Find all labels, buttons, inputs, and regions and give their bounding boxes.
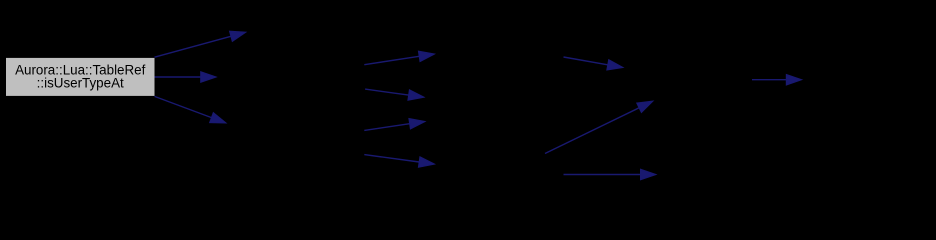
edge box->n2 <box>155 72 217 83</box>
edge n3->n7 <box>364 155 434 168</box>
edge n3->n6 <box>364 119 425 131</box>
edge box->n1 <box>155 31 246 57</box>
node box Aurora::Lua::TableRef::isUserTypeAt <box>6 57 156 96</box>
edge n7->n9 <box>564 169 657 180</box>
svg-text:::isUserTypeAt: ::isUserTypeAt <box>37 75 124 90</box>
edge box->n3 <box>155 96 227 123</box>
edge n2->n5 <box>365 89 424 100</box>
edge n4->n8 <box>564 57 624 70</box>
edge n7->n8 <box>545 101 653 154</box>
edge n8->n10 <box>752 74 802 85</box>
edge n1->n4 <box>364 51 434 65</box>
